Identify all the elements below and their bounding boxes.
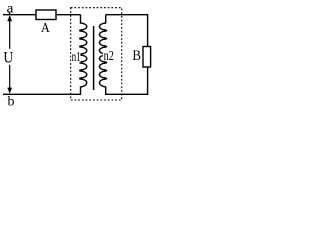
svg-text:b: b	[8, 95, 15, 110]
svg-text:a: a	[7, 1, 15, 16]
svg-text:A: A	[41, 21, 51, 36]
svg-text:U: U	[3, 50, 13, 67]
svg-text:n1: n1	[72, 50, 81, 65]
svg-text:B: B	[132, 48, 141, 64]
svg-text:n2: n2	[104, 49, 114, 64]
